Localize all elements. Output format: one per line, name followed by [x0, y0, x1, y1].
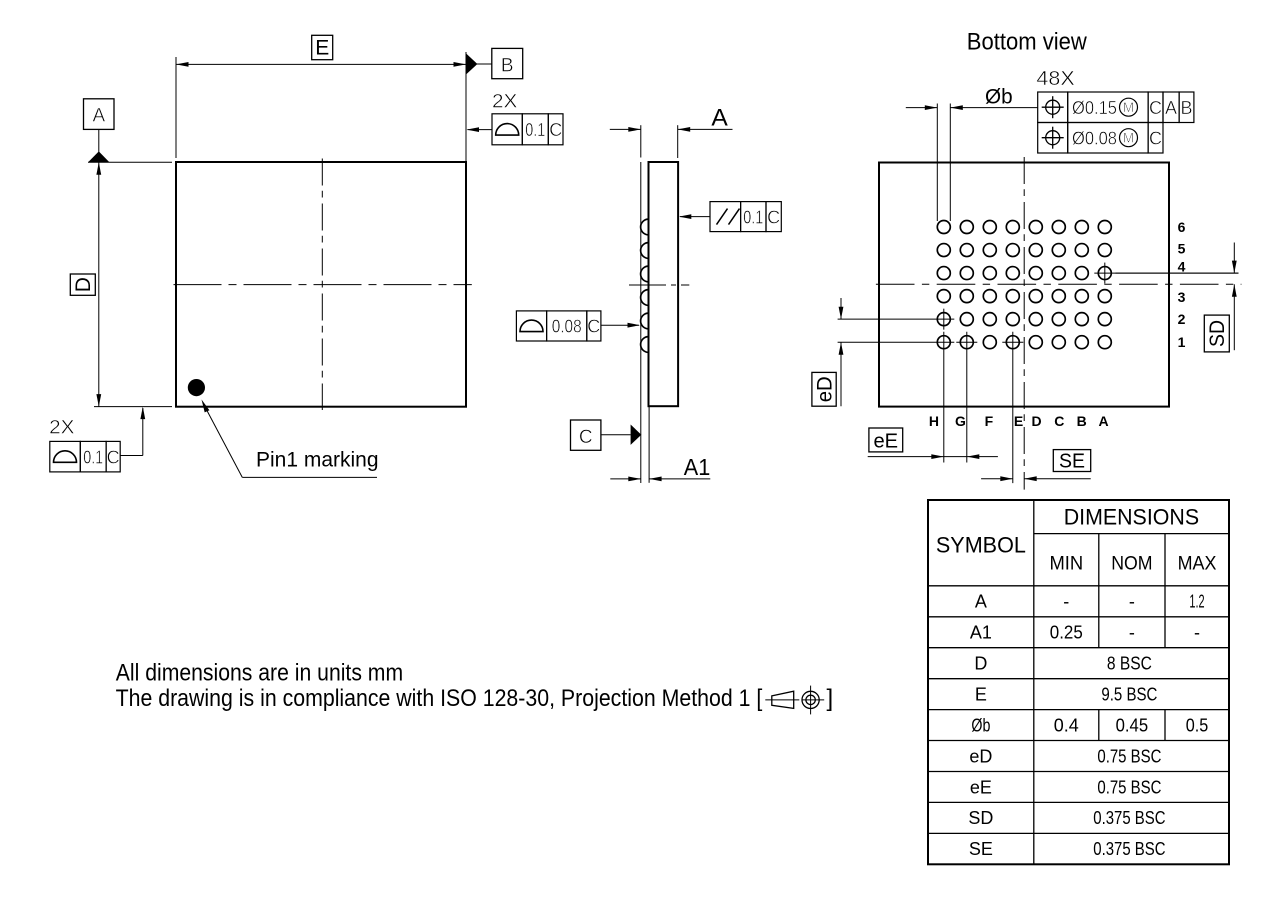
side view package body outline: [649, 162, 679, 406]
datum A symbol triangle: [88, 129, 172, 162]
svg-text:3: 3: [1178, 289, 1186, 305]
svg-text:0.75 BSC: 0.75 BSC: [1097, 777, 1161, 797]
ball row 2: [937, 313, 1111, 326]
svg-text:-: -: [1194, 623, 1200, 643]
feature control frame parallelism 0.1 C: [710, 202, 781, 232]
svg-text:-: -: [1129, 623, 1135, 643]
datum C symbol triangle: [601, 425, 641, 445]
svg-text:0.5: 0.5: [1186, 715, 1209, 735]
svg-text:0.1: 0.1: [743, 207, 763, 227]
leader arrow from 0.1 C frame to right edge: [467, 127, 493, 132]
side view solder balls: [641, 219, 649, 352]
svg-text:The drawing is in compliance w: The drawing is in compliance with ISO 12…: [116, 685, 763, 712]
svg-text:B: B: [1180, 98, 1192, 118]
svg-text:E: E: [975, 684, 987, 704]
svg-text:C: C: [767, 207, 780, 227]
SE dimension line with arrows: [981, 476, 1091, 481]
svg-text:48X: 48X: [1036, 68, 1074, 90]
eD dimension label box (rotated): [812, 372, 837, 406]
eD dimension line with arrows: [839, 298, 844, 406]
table header text: [936, 505, 1217, 575]
svg-text:E: E: [315, 37, 329, 60]
svg-text:-: -: [1129, 592, 1135, 612]
feature control frame profile 0.08 C side view: [516, 311, 600, 341]
note line 1: [116, 660, 403, 687]
svg-text:eE: eE: [874, 431, 899, 453]
svg-text:D: D: [72, 277, 95, 292]
svg-text:eE: eE: [970, 777, 992, 797]
pin1 marking leader: [202, 400, 378, 478]
svg-text:9.5 BSC: 9.5 BSC: [1101, 684, 1157, 704]
note closing bracket: [827, 685, 834, 712]
svg-text:B: B: [1077, 413, 1087, 429]
top view horizontal centerline: [174, 284, 472, 286]
48x count annotation: [1036, 68, 1074, 90]
bottom view vertical centerline: [1023, 157, 1025, 490]
E dimension line with arrows: [176, 62, 466, 67]
svg-text:Øb: Øb: [971, 715, 990, 735]
svg-text:0.75 BSC: 0.75 BSC: [1097, 746, 1161, 766]
svg-text:1: 1: [1178, 334, 1186, 350]
A1 dimension label: [684, 454, 711, 480]
2x count annotation bottom left: [49, 418, 75, 439]
SD dimension label box (rotated): [1204, 315, 1229, 352]
svg-text:2: 2: [1178, 311, 1186, 327]
svg-text:1.2: 1.2: [1189, 592, 1204, 612]
datum B symbol triangle: [466, 53, 492, 74]
bottom view package outline: [879, 163, 1169, 407]
svg-text:MIN: MIN: [1049, 554, 1083, 575]
svg-text:0.375 BSC: 0.375 BSC: [1093, 839, 1165, 859]
bottom view title: [967, 28, 1088, 55]
Ob dimension extension lines: [937, 104, 950, 222]
svg-text:D: D: [1032, 413, 1042, 429]
svg-text:Bottom view: Bottom view: [967, 28, 1088, 55]
side view centerline: [629, 284, 689, 286]
svg-text:A: A: [1099, 413, 1109, 429]
ball row 3: [937, 290, 1111, 303]
D dimension bottom extension line: [94, 406, 172, 408]
feature control frame profile 0.1 C top right: [492, 114, 563, 145]
svg-text:2X: 2X: [492, 92, 518, 113]
pin1 marking dot: [188, 379, 205, 396]
SD dimension line with arrows: [1232, 243, 1237, 351]
svg-text:SE: SE: [1059, 450, 1085, 472]
svg-text:0.45: 0.45: [1116, 715, 1149, 735]
svg-text:A: A: [92, 106, 105, 127]
datum C label box: [571, 420, 601, 450]
D dimension line with arrows: [96, 162, 101, 406]
svg-text:-: -: [1063, 592, 1069, 612]
svg-text:eD: eD: [813, 376, 836, 402]
svg-text:6: 6: [1178, 219, 1186, 235]
svg-text:4: 4: [1178, 259, 1186, 275]
A dimension line with arrows: [610, 127, 733, 132]
svg-text:C: C: [1149, 98, 1162, 118]
E dimension extension line right / datum B stem: [465, 52, 467, 161]
A dimension label: [711, 105, 727, 132]
svg-text:D: D: [974, 654, 987, 674]
table data rows: [968, 592, 1208, 860]
svg-text:C: C: [579, 427, 593, 448]
svg-text:B: B: [501, 55, 514, 76]
D dimension label box (rotated): [70, 274, 95, 295]
svg-text:C: C: [1149, 129, 1162, 149]
feature control frame profile 0.1 C bottom left: [50, 441, 120, 472]
svg-text:C: C: [1054, 413, 1064, 429]
svg-text:]: ]: [827, 685, 834, 712]
E dimension extension line left: [175, 57, 177, 158]
dimensions table grid: [928, 500, 1229, 864]
feature control frame position 0.08 M C: [1038, 123, 1163, 154]
SE dimension label box: [1053, 450, 1090, 473]
svg-text:0.4: 0.4: [1054, 715, 1079, 735]
svg-text:DIMENSIONS: DIMENSIONS: [1064, 505, 1199, 530]
Ob dimension label: [985, 86, 1013, 109]
svg-text:eD: eD: [969, 746, 992, 766]
svg-text:8 BSC: 8 BSC: [1107, 654, 1152, 674]
svg-text:F: F: [985, 413, 994, 429]
ball column letter labels: [929, 413, 1109, 429]
svg-text:0.25: 0.25: [1050, 623, 1083, 643]
svg-text:A1: A1: [970, 623, 992, 643]
top view vertical centerline: [321, 159, 323, 411]
leader arrow from parallelism frame to body edge: [679, 214, 710, 219]
leader arrow from 0.08 frame to seating plane: [601, 323, 640, 328]
Ob dimension line with arrows: [906, 105, 1038, 110]
leader from bottom left frame up to extension line: [120, 407, 145, 456]
bottom view horizontal centerline: [876, 283, 1242, 285]
ball row 5: [937, 244, 1111, 257]
A1 dimension line with arrows: [610, 477, 710, 482]
svg-text:SD: SD: [968, 808, 993, 828]
ball row 4: [937, 267, 1111, 280]
svg-text:2X: 2X: [49, 418, 75, 439]
crosshair ball H1: [838, 332, 955, 463]
svg-text:C: C: [587, 317, 600, 337]
ball row 1: [937, 336, 1111, 349]
svg-text:G: G: [955, 413, 966, 429]
svg-text:A: A: [975, 592, 987, 612]
crosshair ball E1: [1002, 332, 1023, 483]
svg-text:SE: SE: [969, 839, 993, 859]
datum A label box: [84, 99, 115, 130]
svg-text:M: M: [1123, 130, 1134, 145]
top view package body outline: [176, 162, 466, 407]
svg-text:A: A: [1165, 98, 1177, 118]
eE dimension label box: [869, 428, 903, 453]
svg-text:0.375 BSC: 0.375 BSC: [1093, 808, 1165, 828]
feature control frame position 0.15 M C A B: [1038, 92, 1194, 123]
svg-text:C: C: [549, 120, 562, 140]
svg-text:SYMBOL: SYMBOL: [936, 532, 1026, 557]
SD dimension row 4 extension line: [1116, 272, 1239, 274]
svg-text:Pin1 marking: Pin1 marking: [256, 448, 379, 471]
E dimension label box: [312, 35, 333, 59]
svg-text:NOM: NOM: [1111, 554, 1152, 575]
ball row 6: [937, 221, 1111, 234]
note line 2: [116, 685, 763, 712]
side view right extension line for A dimension: [677, 125, 679, 158]
2x count annotation top right: [492, 92, 518, 113]
side view seating plane line: [640, 125, 642, 483]
datum B label box: [492, 48, 523, 78]
eE dimension line with arrows: [868, 454, 998, 459]
svg-text:A1: A1: [684, 454, 711, 480]
side view body surface extension below: [648, 406, 650, 483]
crosshair ball H2: [838, 309, 955, 330]
svg-text:All dimensions are in units mm: All dimensions are in units mm: [116, 660, 403, 687]
svg-text:0.1: 0.1: [525, 120, 545, 140]
svg-text:0.1: 0.1: [83, 447, 103, 467]
svg-text:M: M: [1123, 100, 1134, 115]
pin1 marking label: [256, 448, 379, 471]
ball row number labels: [1178, 219, 1186, 350]
svg-text:H: H: [929, 413, 939, 429]
crosshair ball A4: [1094, 263, 1238, 284]
svg-text:0.08: 0.08: [552, 317, 582, 337]
svg-text:MAX: MAX: [1178, 554, 1217, 575]
svg-text:C: C: [107, 447, 120, 467]
svg-text:A: A: [711, 105, 727, 132]
svg-text:E: E: [1014, 413, 1023, 429]
svg-text:Ø0.15: Ø0.15: [1072, 98, 1117, 118]
svg-text:SD: SD: [1206, 320, 1229, 347]
svg-text:5: 5: [1178, 241, 1186, 257]
svg-text:Ø0.08: Ø0.08: [1072, 129, 1117, 149]
projection method symbol: [765, 686, 824, 715]
crosshair ball G1: [956, 332, 977, 463]
svg-text:Øb: Øb: [985, 86, 1013, 109]
